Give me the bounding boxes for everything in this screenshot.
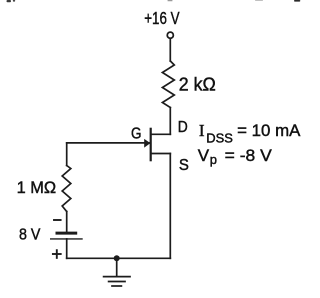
svg-text:+16 V: +16 V [144, 8, 180, 28]
resistor R1 2 kΩ [162, 61, 174, 108]
decorative [7, 0, 301, 2]
wire source to bottom [169, 154, 171, 259]
label VP = -8 V [198, 146, 273, 167]
wire gate lead [67, 142, 149, 144]
battery V1 positive plate [51, 238, 82, 240]
svg-text:DSS: DSS [206, 131, 233, 146]
wire source lead [152, 153, 171, 155]
junction node [114, 255, 120, 261]
wire R1 to drain [169, 108, 171, 135]
svg-text:p: p [210, 152, 217, 167]
transistor Q1 gate arrow [144, 139, 150, 148]
wire gate corner down [66, 143, 68, 166]
svg-text:D: D [178, 119, 188, 136]
wire bottom rail [67, 257, 171, 259]
resistor R2 1 MΩ [62, 166, 71, 212]
svg-text:= -8 V: = -8 V [225, 146, 273, 165]
svg-text:2 kΩ: 2 kΩ [179, 74, 216, 94]
wire terminal to R1 [169, 39, 171, 61]
ground [104, 277, 130, 286]
wire R2 to battery [66, 212, 68, 232]
svg-text:= 10 mA: = 10 mA [237, 121, 301, 140]
svg-text:8 V: 8 V [19, 227, 41, 244]
terminal node +16V [167, 32, 173, 38]
wire battery down [66, 239, 68, 258]
svg-text:G: G [131, 126, 142, 143]
svg-text:1 MΩ: 1 MΩ [17, 178, 57, 197]
wire to ground [116, 258, 118, 276]
battery V1 plus sign [53, 253, 61, 255]
label IDSS = 10 mA [199, 121, 301, 146]
battery V1 minus sign [54, 219, 61, 221]
battery V1 negative plate [57, 232, 76, 235]
transistor Q1 JFET channel bar [150, 129, 152, 160]
svg-text:V: V [198, 146, 210, 165]
svg-text:I: I [199, 121, 205, 140]
svg-text:S: S [179, 157, 189, 174]
wire drain lead [152, 133, 171, 135]
